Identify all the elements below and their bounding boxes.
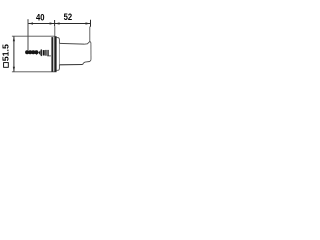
- screw thread coils: [25, 50, 29, 54]
- extension line top of plate: [12, 35, 55, 37]
- arrowhead 40 right: [50, 22, 55, 24]
- tube top edge: [59, 42, 84, 45]
- square symbol of square-plate dimension: [4, 63, 9, 68]
- screw tip bowtie: [36, 50, 40, 55]
- screw head bar: [43, 50, 45, 55]
- lock ring 2: [47, 50, 48, 56]
- left dim arrow down: [13, 67, 15, 72]
- plate front bar: [54, 36, 56, 72]
- svg-text:51.5: 51.5: [2, 44, 11, 62]
- cup mouth face: [90, 43, 92, 60]
- screw washer line: [41, 49, 42, 56]
- cup top lip: [84, 42, 91, 45]
- top dim tick right: [90, 20, 92, 27]
- collar junction line: [58, 43, 60, 65]
- top dim tick middle: [54, 20, 56, 26]
- wall line / left extension: [27, 21, 29, 51]
- top dimension line: [28, 23, 91, 25]
- extension above plate front: [54, 27, 56, 37]
- lock ring 1: [45, 50, 46, 56]
- washer bottom stub: [47, 55, 51, 57]
- arrowhead 52 right: [86, 22, 91, 24]
- extension line bottom of plate: [12, 71, 57, 73]
- left dim arrow up: [13, 37, 15, 42]
- collar bottom edge: [57, 65, 60, 71]
- arrowhead 40 left: [28, 22, 33, 24]
- arrowhead 52 left: [55, 22, 60, 24]
- top dim tick left: [27, 19, 29, 26]
- extension to holder end: [89, 27, 91, 42]
- collar top edge: [57, 38, 60, 44]
- left dimension line (51.5): [13, 36, 15, 72]
- svg-text:52: 52: [64, 12, 73, 22]
- plate rear bar: [51, 37, 53, 72]
- cup bottom lip: [83, 60, 91, 65]
- svg-text:40: 40: [36, 13, 45, 24]
- tube bottom edge: [59, 64, 82, 66]
